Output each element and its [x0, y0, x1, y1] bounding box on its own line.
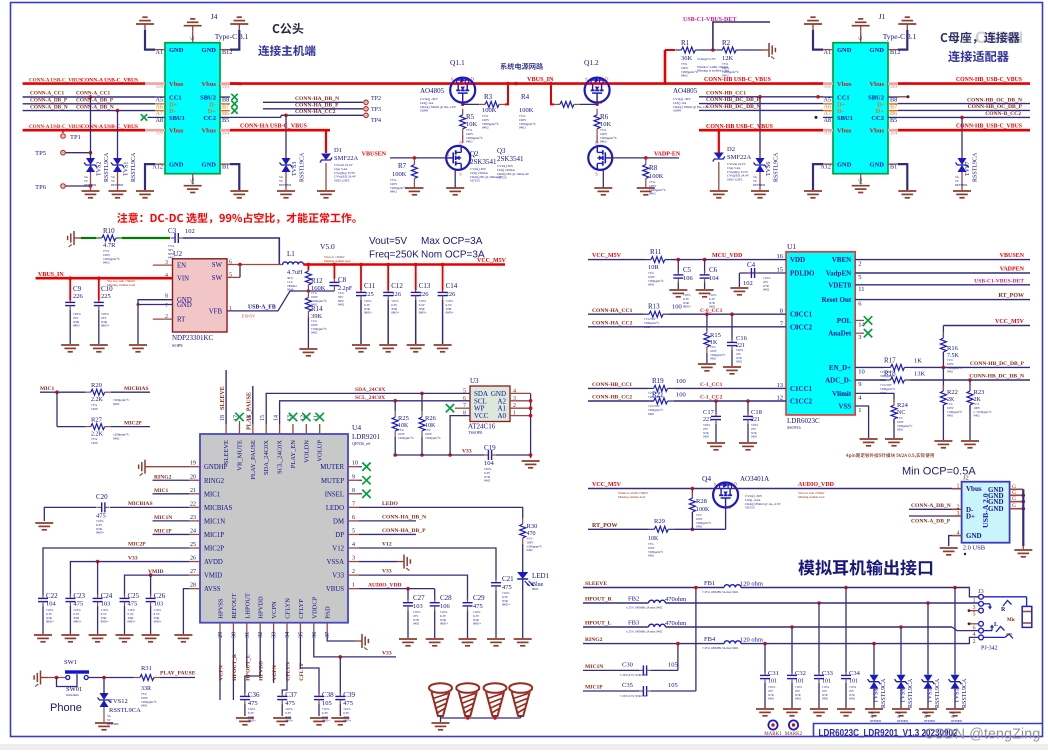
- svg-text:G: G: [1012, 496, 1016, 502]
- svg-text:GND: GND: [988, 505, 1004, 513]
- svg-text:CONN-HB_OC_DB_N: CONN-HB_OC_DB_N: [967, 97, 1022, 103]
- svg-text:C0CC2: C0CC2: [790, 323, 813, 331]
- svg-text:C34: C34: [849, 670, 861, 677]
- svg-text:SW01: SW01: [66, 686, 82, 693]
- svg-text:R1: R1: [681, 39, 690, 47]
- svg-text:36K: 36K: [681, 55, 693, 62]
- svg-text:SOT23: SOT23: [745, 506, 755, 510]
- svg-text:VDDCP: VDDCP: [311, 596, 318, 618]
- svg-text:226: 226: [446, 291, 457, 298]
- svg-text:AVSS: AVSS: [204, 586, 221, 593]
- svg-text:CONN-HB_DC_DB_P: CONN-HB_DC_DB_P: [706, 97, 761, 103]
- svg-text:TVS8: TVS8: [874, 689, 880, 703]
- svg-text:GND: GND: [202, 162, 217, 169]
- svg-text:0402: 0402: [763, 288, 770, 292]
- svg-text:100K: 100K: [649, 173, 664, 180]
- svg-text:VCPN: VCPN: [219, 665, 225, 681]
- svg-text:GNDHP: GNDHP: [204, 464, 228, 471]
- svg-text:DFP0806: DFP0806: [753, 183, 766, 187]
- svg-text:R21: R21: [652, 390, 664, 398]
- svg-text:VSS: VSS: [838, 403, 851, 411]
- svg-text:104: 104: [46, 601, 57, 608]
- svg-text:SLEEVE: SLEEVE: [220, 386, 226, 410]
- svg-text:6: 6: [463, 396, 466, 402]
- svg-text:Q1.2: Q1.2: [584, 58, 599, 67]
- svg-text:R23: R23: [974, 389, 985, 396]
- svg-text:CONN-A_DB_N: CONN-A_DB_N: [30, 104, 68, 110]
- svg-text:Vbus: Vbus: [169, 128, 184, 135]
- svg-text:2SK3541: 2SK3541: [497, 155, 524, 163]
- svg-text:DFP0806: DFP0806: [870, 719, 882, 723]
- svg-text:A8: A8: [823, 117, 831, 124]
- svg-text:PLAY_PAUSE: PLAY_PAUSE: [247, 392, 253, 430]
- svg-text:EN_D+: EN_D+: [829, 364, 851, 372]
- svg-text:U4: U4: [352, 423, 361, 432]
- svg-text:Vbus: Vbus: [837, 81, 852, 88]
- svg-text:C5: C5: [683, 266, 692, 274]
- svg-text:MUTER: MUTER: [320, 464, 344, 471]
- svg-text:SBU1: SBU1: [837, 115, 853, 122]
- svg-text:102: 102: [185, 228, 195, 235]
- svg-text:101: 101: [768, 679, 777, 685]
- svg-text:HPOUT_L: HPOUT_L: [585, 621, 612, 627]
- svg-text:RING2: RING2: [585, 637, 603, 643]
- svg-text:LHPOUT: LHPOUT: [244, 593, 251, 619]
- svg-text:R12: R12: [311, 277, 323, 285]
- svg-text:Vbus: Vbus: [202, 81, 217, 88]
- svg-text:C6: C6: [709, 266, 718, 274]
- svg-text:R29: R29: [654, 518, 665, 525]
- svg-text:0402: 0402: [141, 704, 148, 708]
- svg-text:0402: 0402: [648, 554, 655, 558]
- svg-text:10R: 10R: [648, 264, 660, 271]
- svg-text:C18: C18: [751, 409, 762, 416]
- svg-text:37: 37: [325, 632, 331, 638]
- svg-text:C22: C22: [46, 592, 58, 600]
- svg-text:RSSTL9CA: RSSTL9CA: [962, 678, 968, 708]
- svg-text:C16: C16: [736, 335, 748, 342]
- svg-text:L1: L1: [287, 250, 295, 258]
- svg-text:C20: C20: [96, 493, 108, 501]
- svg-text:475: 475: [473, 603, 483, 610]
- svg-text:DFP0806: DFP0806: [955, 183, 968, 187]
- svg-text:10: 10: [352, 461, 358, 467]
- svg-text:0402: 0402: [466, 140, 473, 144]
- svg-text:TVS1: TVS1: [124, 162, 130, 176]
- svg-text:SOD-123FL: SOD-123FL: [334, 179, 350, 183]
- svg-text:9: 9: [858, 381, 861, 388]
- svg-text:G: G: [191, 36, 196, 40]
- svg-text:Vlimit: Vlimit: [832, 390, 852, 398]
- svg-text:DFP0806: DFP0806: [951, 719, 963, 723]
- svg-text:10K: 10K: [600, 121, 612, 128]
- svg-text:12K: 12K: [722, 55, 734, 62]
- svg-text:G: G: [1012, 490, 1016, 496]
- svg-text:100K: 100K: [482, 107, 497, 114]
- svg-text:8: 8: [352, 488, 355, 494]
- svg-text:Vbus: Vbus: [169, 81, 184, 88]
- svg-text:LDR6023C: LDR6023C: [787, 417, 820, 425]
- svg-text:0402: 0402: [390, 190, 397, 194]
- svg-text:C21: C21: [502, 575, 514, 583]
- svg-text:D+: D+: [966, 513, 975, 521]
- svg-text:CFLYN: CFLYN: [285, 598, 292, 619]
- svg-text:0630: 0630: [287, 288, 294, 292]
- svg-text:GND: GND: [870, 47, 885, 54]
- svg-text:18: 18: [220, 415, 226, 421]
- svg-text:MIC2P: MIC2P: [204, 546, 224, 553]
- svg-text:Q3: Q3: [497, 147, 506, 155]
- svg-text:SBU1: SBU1: [169, 115, 185, 122]
- svg-text:4.7R: 4.7R: [103, 242, 116, 249]
- svg-text:104: 104: [484, 460, 495, 467]
- svg-text:TVS7: TVS7: [965, 162, 971, 176]
- svg-text:RSSTL9CA: RSSTL9CA: [104, 152, 110, 182]
- svg-text:0402: 0402: [849, 697, 856, 701]
- svg-text:HPOUT_R: HPOUT_R: [232, 653, 238, 681]
- svg-text:R31: R31: [141, 665, 152, 672]
- svg-text:AO4805: AO4805: [673, 87, 698, 95]
- svg-text:3: 3: [973, 605, 976, 611]
- svg-text:0805+: 0805+: [419, 311, 427, 315]
- svg-text:0402: 0402: [649, 192, 656, 196]
- svg-text:475: 475: [73, 601, 83, 608]
- svg-text:C17: C17: [703, 409, 715, 416]
- svg-text:± 20% 6.3V X5R 0402: ± 20% 6.3V X5R 0402: [620, 673, 648, 677]
- svg-text:100V: 100V: [91, 407, 99, 411]
- svg-text:CSDN @tengZing: CSDN @tengZing: [924, 727, 1040, 743]
- svg-text:C36: C36: [248, 691, 260, 699]
- svg-text:L: L: [994, 622, 998, 628]
- svg-text:R18: R18: [884, 370, 896, 378]
- svg-text:2: 2: [973, 639, 976, 645]
- svg-text:VMID: VMID: [204, 573, 222, 580]
- svg-text:SOP8: SOP8: [420, 109, 428, 113]
- svg-text:470ohm: 470ohm: [665, 620, 686, 627]
- svg-text:CC2: CC2: [203, 115, 216, 122]
- svg-text:0402: 0402: [947, 414, 954, 418]
- svg-text:475: 475: [128, 601, 138, 608]
- svg-text:R14: R14: [311, 305, 323, 313]
- svg-text:CONN-HA_CC2: CONN-HA_CC2: [592, 320, 633, 326]
- svg-text:TP5: TP5: [35, 150, 46, 157]
- svg-text:0402: 0402: [795, 697, 802, 701]
- svg-text:VCC_M5V: VCC_M5V: [995, 319, 1025, 325]
- svg-text:TVS6: TVS6: [766, 162, 772, 176]
- svg-text:0805+: 0805+: [248, 719, 256, 723]
- svg-text:100K: 100K: [392, 171, 407, 178]
- svg-text:0402: 0402: [974, 414, 981, 418]
- svg-text:Mic: Mic: [1007, 618, 1016, 623]
- svg-text:0402: 0402: [648, 412, 655, 416]
- svg-text:10K: 10K: [466, 121, 478, 128]
- svg-text:0805+: 0805+: [128, 620, 136, 624]
- svg-text:Voltage≈5.3V: Voltage≈5.3V: [697, 57, 716, 61]
- svg-text:B1: B1: [222, 164, 229, 171]
- svg-text:CONN-HB_USB-C_VBUS: CONN-HB_USB-C_VBUS: [956, 77, 1022, 83]
- svg-text:0805+: 0805+: [440, 622, 448, 626]
- svg-text:100: 100: [676, 378, 686, 385]
- svg-text:C27: C27: [413, 594, 425, 602]
- svg-text:± 25% 100MHz 3A max 0402: ± 25% 100MHz 3A max 0402: [626, 630, 663, 634]
- svg-text:Freq=250K: Freq=250K: [369, 250, 419, 261]
- svg-text:G: G: [191, 178, 196, 182]
- svg-text:VOLUP: VOLUP: [317, 440, 324, 462]
- svg-text:CONN-HB_CC1: CONN-HB_CC1: [592, 382, 632, 388]
- svg-text:33: 33: [272, 632, 278, 638]
- svg-text:C39: C39: [343, 691, 355, 699]
- svg-text:C11: C11: [364, 282, 376, 290]
- svg-text:AUDIO_VDD: AUDIO_VDD: [798, 482, 835, 488]
- svg-text:C28: C28: [440, 594, 452, 602]
- svg-text:CONN-A USB-C_VBUS: CONN-A USB-C_VBUS: [81, 77, 138, 83]
- svg-text:F B=5V: F B=5V: [242, 314, 255, 319]
- svg-text:MICBIAS: MICBIAS: [204, 505, 233, 512]
- svg-text:4.7uH: 4.7uH: [287, 269, 303, 276]
- svg-text:RSSTL9CA: RSSTL9CA: [973, 152, 979, 182]
- svg-text:VDET0: VDET0: [828, 281, 851, 289]
- svg-text:CONN-A USB-C_VBUS: CONN-A USB-C_VBUS: [29, 124, 82, 130]
- svg-text:R20: R20: [91, 382, 102, 389]
- svg-text:PLAY_PAUSE: PLAY_PAUSE: [250, 440, 257, 480]
- svg-text:RSSTL9CA: RSSTL9CA: [131, 152, 137, 182]
- svg-text:AO3401A: AO3401A: [740, 475, 769, 483]
- svg-text:GND: GND: [177, 302, 192, 309]
- svg-text:SCL_24C0X: SCL_24C0X: [355, 395, 385, 401]
- svg-text:R7: R7: [398, 162, 407, 170]
- svg-text:Type-C 3.1: Type-C 3.1: [883, 32, 917, 41]
- svg-text:TSSOP8: TSSOP8: [468, 430, 482, 435]
- svg-text:V33: V33: [128, 555, 138, 561]
- svg-text:13K: 13K: [914, 371, 926, 378]
- svg-text:B1: B1: [890, 164, 897, 171]
- svg-text:R28: R28: [696, 498, 707, 505]
- svg-text:C35: C35: [622, 682, 633, 689]
- svg-text:R10: R10: [103, 227, 115, 235]
- svg-text:Vbus: Vbus: [966, 485, 982, 493]
- svg-text:DFP0806: DFP0806: [924, 719, 936, 723]
- svg-text:CONN-A_CC1: CONN-A_CC1: [30, 91, 64, 97]
- svg-text:J1: J1: [879, 12, 886, 21]
- svg-text:VBUS: VBUS: [326, 586, 344, 593]
- svg-text:INSEL: INSEL: [325, 491, 344, 498]
- svg-text:± 25% 100MHz 3A max 0402: ± 25% 100MHz 3A max 0402: [702, 646, 739, 650]
- svg-text:TP6: TP6: [35, 184, 47, 191]
- svg-text:C13: C13: [419, 282, 431, 290]
- svg-text:C25: C25: [128, 592, 140, 600]
- svg-text:G: G: [859, 36, 864, 40]
- svg-text:0402: 0402: [822, 697, 829, 701]
- svg-text:EN: EN: [177, 263, 186, 270]
- svg-text:RSSTL9CA: RSSTL9CA: [908, 678, 914, 708]
- svg-text:G: G: [1012, 503, 1016, 509]
- svg-text:VCPN: VCPN: [272, 665, 278, 681]
- svg-text:TVS9: TVS9: [901, 689, 907, 703]
- svg-text:19: 19: [190, 461, 196, 467]
- svg-text:CONN-HB_USB-C_VBUS: CONN-HB_USB-C_VBUS: [956, 124, 1022, 130]
- svg-text:103: 103: [154, 601, 164, 608]
- svg-text:U2: U2: [173, 249, 182, 258]
- svg-text:DP: DP: [335, 532, 344, 539]
- svg-text:HPVDD: HPVDD: [258, 596, 265, 619]
- svg-text:MIC1: MIC1: [204, 491, 220, 498]
- svg-text:GND: GND: [966, 532, 982, 540]
- svg-text:1: 1: [858, 407, 861, 414]
- svg-text:Missing sudden load: Missing sudden load: [798, 495, 825, 499]
- svg-text:GND: GND: [870, 162, 885, 169]
- svg-text:0402: 0402: [113, 436, 120, 440]
- svg-text:VFB: VFB: [209, 308, 223, 315]
- svg-text:SDA_24C0X: SDA_24C0X: [355, 387, 385, 393]
- svg-text:LEDO: LEDO: [382, 501, 399, 507]
- svg-text:Nom OCP=3A: Nom OCP=3A: [421, 250, 485, 261]
- svg-text:20: 20: [190, 474, 196, 480]
- svg-text:Vbus: Vbus: [870, 81, 885, 88]
- svg-text:USB-C1-VBUS-DET: USB-C1-VBUS-DET: [974, 278, 1024, 284]
- svg-text:TVS3: TVS3: [292, 162, 298, 176]
- svg-text:9: 9: [352, 474, 355, 480]
- svg-text:AO4805: AO4805: [420, 87, 445, 95]
- svg-text:CONN-A_DB_N: CONN-A_DB_N: [911, 503, 951, 509]
- svg-text:1: 1: [973, 598, 976, 604]
- svg-text:± 25% 100MHz 3A max 0402: ± 25% 100MHz 3A max 0402: [626, 606, 663, 610]
- svg-text:AUDIO_VDD: AUDIO_VDD: [368, 582, 402, 588]
- svg-text:C24: C24: [101, 592, 113, 600]
- svg-text:TVS12: TVS12: [109, 698, 128, 705]
- svg-text:C23: C23: [73, 592, 85, 600]
- svg-text:101: 101: [795, 679, 804, 685]
- svg-text:105: 105: [668, 662, 678, 669]
- svg-text:CONN-A_DB_P: CONN-A_DB_P: [30, 98, 68, 104]
- svg-text:102: 102: [743, 280, 753, 287]
- svg-text:C12: C12: [391, 282, 403, 290]
- svg-text:0402: 0402: [338, 303, 345, 307]
- svg-text:SDA_24C0X: SDA_24C0X: [263, 440, 270, 475]
- svg-text:1K: 1K: [914, 357, 922, 364]
- svg-text:C-1_CC2: C-1_CC2: [700, 395, 723, 401]
- svg-text:V12: V12: [332, 546, 344, 553]
- svg-text:± 25% 100MHz 3A max 0402: ± 25% 100MHz 3A max 0402: [702, 590, 739, 594]
- svg-text:C4: C4: [747, 261, 756, 269]
- svg-text:0402: 0402: [681, 74, 688, 78]
- svg-text:R27: R27: [91, 416, 103, 423]
- svg-text:CONN-A_CC1: CONN-A_CC1: [76, 91, 110, 97]
- svg-text:USB-A_FB: USB-A_FB: [248, 305, 276, 311]
- svg-text:V33: V33: [332, 573, 344, 580]
- svg-text:22: 22: [190, 501, 196, 507]
- svg-text:30: 30: [231, 632, 237, 638]
- svg-text:REFOUT: REFOUT: [231, 593, 238, 618]
- svg-text:MCU_VDD: MCU_VDD: [712, 253, 743, 259]
- svg-text:0402: 0402: [311, 331, 318, 335]
- svg-text:C3: C3: [168, 227, 177, 235]
- svg-text:C8: C8: [338, 276, 347, 284]
- svg-text:CONN-HB_OC_DB_P: CONN-HB_OC_DB_P: [968, 104, 1023, 110]
- svg-text:TP4: TP4: [371, 118, 381, 124]
- svg-text:MUTEP: MUTEP: [321, 478, 344, 485]
- svg-text:CONN-HB_DC_DB_N: CONN-HB_DC_DB_N: [969, 374, 1024, 380]
- svg-text:C0CC1: C0CC1: [790, 311, 813, 319]
- svg-text:36: 36: [312, 632, 318, 638]
- svg-text:± 20% 6.3V X5R 0402: ± 20% 6.3V X5R 0402: [620, 694, 648, 698]
- svg-text:104: 104: [709, 275, 720, 282]
- svg-text:0402: 0402: [413, 622, 420, 626]
- svg-text:101: 101: [822, 679, 831, 685]
- svg-text:FB2: FB2: [628, 595, 639, 602]
- svg-text:AnaDet: AnaDet: [828, 330, 852, 338]
- svg-text:8: 8: [165, 294, 168, 300]
- svg-text:106: 106: [683, 275, 694, 282]
- svg-text:CONN-HA_DB_N: CONN-HA_DB_N: [295, 96, 339, 102]
- svg-text:475: 475: [285, 700, 295, 707]
- svg-text:MARK2: MARK2: [785, 732, 803, 737]
- svg-text:0805+: 0805+: [322, 719, 330, 723]
- svg-text:CONN-HB_DC_DB_N: CONN-HB_DC_DB_N: [706, 104, 761, 110]
- svg-text:C26: C26: [154, 592, 166, 600]
- svg-text:CONN-B_CC2: CONN-B_CC2: [985, 111, 1021, 117]
- svg-text:5: 5: [858, 274, 861, 281]
- svg-text:CONN-A_DB_P: CONN-A_DB_P: [76, 98, 114, 104]
- svg-text:3: 3: [858, 334, 861, 341]
- svg-text:HPOUT_R: HPOUT_R: [585, 597, 613, 603]
- svg-text:2SK3541: 2SK3541: [470, 158, 497, 166]
- svg-text:PAD: PAD: [325, 606, 332, 619]
- svg-text:CONN-HB USB-C_VBUS: CONN-HB USB-C_VBUS: [704, 77, 772, 83]
- svg-text:VBUSEN: VBUSEN: [1000, 253, 1025, 259]
- svg-text:RSSTL9CA: RSSTL9CA: [300, 152, 306, 182]
- svg-text:0402: 0402: [703, 435, 710, 439]
- svg-text:MICBIAS: MICBIAS: [124, 386, 149, 392]
- svg-text:Vbus: Vbus: [837, 128, 852, 135]
- svg-text:R4: R4: [521, 93, 530, 101]
- svg-text:R26: R26: [425, 415, 437, 422]
- svg-text:Q4: Q4: [702, 474, 711, 483]
- svg-text:28: 28: [190, 583, 196, 589]
- svg-text:VBUS_IN: VBUS_IN: [527, 76, 554, 83]
- svg-text:HPOUT_L: HPOUT_L: [245, 654, 251, 681]
- svg-text:0402: 0402: [527, 548, 534, 552]
- svg-text:VDD: VDD: [790, 256, 805, 264]
- svg-text:15: 15: [260, 415, 266, 421]
- svg-text:MICBIAS: MICBIAS: [128, 501, 153, 507]
- svg-text:11: 11: [858, 286, 864, 293]
- svg-text:A1: A1: [823, 49, 831, 56]
- svg-text:R25: R25: [398, 415, 409, 422]
- svg-text:0402: 0402: [103, 261, 110, 265]
- svg-text:0805+: 0805+: [46, 620, 54, 624]
- svg-text:0402: 0402: [113, 402, 120, 406]
- svg-text:225: 225: [101, 293, 111, 300]
- svg-text:MIC1N: MIC1N: [204, 518, 225, 525]
- svg-text:VADP-EN: VADP-EN: [654, 152, 681, 158]
- svg-text:PJ-342: PJ-342: [981, 646, 998, 652]
- svg-text:RT_POW: RT_POW: [592, 523, 617, 529]
- svg-text:RT: RT: [177, 317, 186, 324]
- svg-text:SW1: SW1: [64, 659, 77, 666]
- svg-text:Missing sudden load: Missing sudden load: [618, 495, 646, 499]
- svg-text:R13: R13: [648, 303, 660, 311]
- svg-text:225: 225: [364, 291, 374, 298]
- svg-text:V33: V33: [382, 569, 392, 575]
- svg-text:V33: V33: [382, 651, 392, 657]
- svg-text:±200ppm/°C: ±200ppm/°C: [425, 436, 441, 440]
- svg-text:VSSA: VSSA: [327, 559, 344, 566]
- svg-text:CC2: CC2: [871, 115, 884, 122]
- svg-text:0402: 0402: [736, 360, 743, 364]
- svg-text:5: 5: [973, 612, 976, 618]
- svg-text:SCL_24C0X: SCL_24C0X: [277, 440, 284, 474]
- svg-text:LED1: LED1: [532, 572, 550, 580]
